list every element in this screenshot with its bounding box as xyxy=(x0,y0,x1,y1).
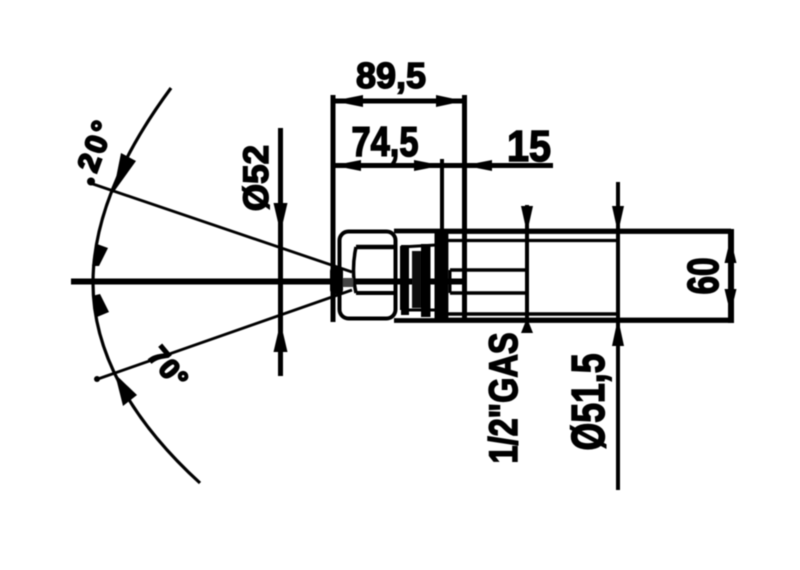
svg-text:Ø52: Ø52 xyxy=(237,145,276,211)
svg-text:15: 15 xyxy=(507,122,551,171)
svg-text:89,5: 89,5 xyxy=(356,55,426,96)
svg-text:Ø51,5: Ø51,5 xyxy=(562,354,614,451)
svg-text:60: 60 xyxy=(679,258,728,295)
svg-text:74,5: 74,5 xyxy=(352,118,419,165)
svg-text:1/2"GAS: 1/2"GAS xyxy=(482,333,526,464)
